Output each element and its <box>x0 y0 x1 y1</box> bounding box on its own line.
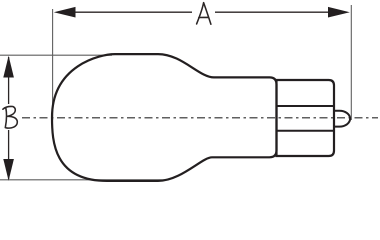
dimension line B <box>8 57 10 104</box>
label A <box>197 3 211 25</box>
extension line B top <box>0 54 112 56</box>
wedge base block <box>277 80 335 156</box>
extension line A right <box>350 5 352 120</box>
label B <box>3 106 17 128</box>
arrowhead A left <box>54 7 76 18</box>
extension line A left <box>52 9 54 120</box>
base inner line upper <box>277 105 334 107</box>
bulb glass outline <box>52 54 277 181</box>
arrowhead A right <box>328 7 350 18</box>
arrowhead B down <box>3 159 14 181</box>
base inner line lower <box>277 130 334 132</box>
dimension line A <box>57 11 192 13</box>
arrowhead B up <box>3 56 14 78</box>
extension line B bottom <box>0 179 168 181</box>
centerline <box>22 117 378 119</box>
tab at base tip <box>334 111 350 127</box>
